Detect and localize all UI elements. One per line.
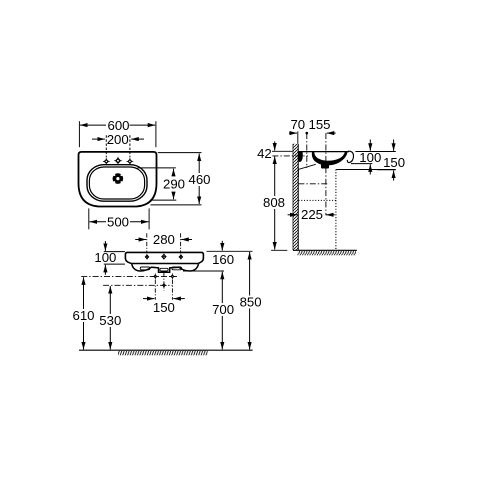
fixing axis vertical left	[154, 280, 156, 300]
svg-text:290: 290	[163, 177, 185, 192]
wall hatch	[293, 144, 298, 251]
dimension 530	[99, 286, 121, 350]
svg-text:700: 700	[212, 302, 234, 317]
svg-text:150: 150	[383, 155, 405, 170]
svg-text:460: 460	[188, 172, 210, 187]
siphon height dash-dot	[298, 183, 329, 185]
svg-text:808: 808	[263, 195, 285, 210]
fixing axis vertical right	[171, 280, 173, 300]
fixing hole left	[152, 273, 158, 279]
siphon axis dash-dot	[103, 284, 172, 286]
dimension 600	[79, 118, 155, 147]
svg-text:200: 200	[107, 132, 129, 147]
front rim bottom line	[132, 263, 199, 265]
side basin rim top	[298, 151, 349, 153]
siphon hole center	[161, 282, 167, 288]
front tap cross left	[145, 254, 149, 259]
front outline	[125, 252, 203, 263]
tap hole left	[103, 158, 110, 165]
hidden drain pipe dotted vertical	[335, 170, 337, 251]
dimension 610	[72, 277, 94, 349]
bowl inner rim	[89, 167, 144, 199]
front floor line	[79, 349, 253, 351]
dimension 100 side	[351, 140, 396, 175]
svg-text:530: 530	[99, 313, 121, 328]
fixing axis dash-dot	[81, 276, 177, 278]
underside slant	[298, 164, 315, 169]
axis2 dash-dot vertical (155/225)	[325, 133, 327, 215]
side floor hatch	[298, 251, 357, 256]
dimension 200	[92, 132, 144, 147]
bowl outer rim	[87, 165, 147, 202]
svg-text:225: 225	[301, 207, 323, 222]
dimension 500	[89, 208, 149, 229]
front tap cross center	[161, 254, 166, 260]
underside extension right	[336, 169, 396, 171]
left lobe slot	[140, 267, 150, 270]
drain boss	[321, 164, 329, 169]
dimension 808	[263, 156, 287, 250]
svg-text:155: 155	[308, 117, 330, 132]
dimension 280	[135, 232, 192, 253]
front underside left lobe	[132, 264, 159, 272]
dimension 150	[143, 299, 185, 315]
wall under vertical	[297, 168, 299, 177]
fixing height dash-dot (42 axis)	[272, 155, 308, 157]
dimension 70-155	[289, 117, 336, 143]
dimension 290	[138, 168, 186, 200]
axis1 dash-dot vertical (70)	[306, 133, 308, 168]
svg-text:610: 610	[72, 308, 94, 323]
front tap cross right	[179, 254, 183, 259]
svg-text:600: 600	[107, 118, 129, 133]
siphon axis vertical	[163, 273, 165, 291]
svg-text:100: 100	[94, 250, 116, 265]
dimension 850	[240, 252, 262, 350]
svg-text:500: 500	[107, 215, 129, 230]
tap axis dashed left	[105, 135, 107, 157]
drain rosette	[113, 173, 124, 184]
svg-text:42: 42	[257, 146, 272, 161]
svg-text:280: 280	[153, 232, 175, 247]
overflow slot	[160, 268, 168, 271]
side basin right lip	[347, 151, 353, 162]
svg-text:70: 70	[290, 117, 305, 132]
svg-text:100: 100	[359, 150, 381, 165]
dimension 225	[288, 207, 335, 222]
fixing hole right	[169, 273, 175, 279]
tap axis dashed right	[129, 135, 131, 157]
side floor line	[293, 249, 357, 251]
right lobe slot	[172, 267, 182, 270]
back ledge	[299, 152, 303, 162]
side bowl outer	[312, 152, 348, 166]
dimension 460	[151, 153, 211, 205]
front overflow tab	[159, 267, 170, 272]
dimension 700	[212, 272, 234, 350]
dimension 150 side	[377, 140, 405, 181]
svg-text:850: 850	[240, 294, 262, 309]
front underside right lobe	[169, 264, 198, 272]
hidden outlet dotted horizontal	[298, 199, 336, 201]
svg-text:160: 160	[212, 252, 234, 267]
dimension 42	[257, 141, 292, 161]
plan outline	[79, 152, 157, 207]
svg-text:150: 150	[153, 300, 175, 315]
tap hole right	[127, 158, 134, 165]
tap hole center	[114, 157, 122, 165]
dimension 160	[183, 241, 253, 271]
front floor hatch	[118, 351, 208, 356]
dimension 100 front	[94, 241, 125, 275]
